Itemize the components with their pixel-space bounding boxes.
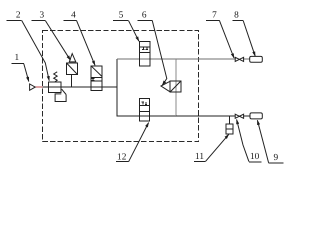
wire branch to component 11 (229, 116, 231, 124)
manifold right edge (175, 59, 177, 116)
component 12 dividers (139, 105, 149, 107)
wire bowtie to component 8 (244, 58, 250, 60)
manifold top edge (117, 58, 176, 60)
component 11 gauge body (226, 124, 233, 134)
component 6 diagonal (170, 81, 181, 92)
svg-text:7: 7 (212, 10, 217, 20)
svg-text:5: 5 (119, 10, 124, 20)
component 2 spring (54, 72, 58, 82)
wire component 3 stem (70, 75, 72, 88)
component 9 actuator (250, 113, 262, 119)
component 10 valve bowtie (235, 114, 243, 118)
label 12 leader (129, 123, 149, 162)
label 5 leader (129, 21, 139, 41)
component 5 port marks (142, 47, 148, 49)
wire red inlet segment (35, 86, 42, 88)
component 2 regulator body (49, 82, 61, 93)
label 6 leader (152, 21, 167, 85)
component 6 triangle (161, 81, 170, 92)
component 1 air inlet triangle (30, 84, 36, 90)
component 7 valve bowtie (235, 57, 243, 61)
svg-text:11: 11 (195, 152, 204, 162)
component 3 diagonal (66, 63, 77, 75)
label 8 leader (243, 20, 255, 56)
component 4 port marks (92, 78, 95, 80)
component 5 valve body (139, 42, 150, 66)
svg-text:12: 12 (117, 152, 127, 162)
wire lower output line (176, 115, 235, 117)
enclosure dashed boundary (43, 30, 199, 141)
svg-text:10: 10 (250, 152, 260, 162)
label 1 leader (24, 64, 29, 82)
svg-text:8: 8 (234, 10, 239, 20)
label 7 leader (219, 20, 234, 58)
label 11 leader (206, 134, 229, 161)
component 2 lower bowl (55, 89, 66, 101)
component 3 vent triangle (69, 54, 76, 62)
svg-text:6: 6 (142, 10, 147, 20)
component 6 check body (170, 81, 181, 92)
label 9 leader (257, 120, 268, 163)
svg-text:4: 4 (71, 11, 76, 21)
wire main supply line (41, 86, 117, 88)
component 12 valve body (139, 99, 149, 122)
svg-text:3: 3 (39, 11, 44, 21)
manifold block left and bottom edges (117, 59, 176, 116)
label 3 leader (45, 20, 70, 60)
component 4 diagonal (91, 66, 102, 77)
label underlines (6, 20, 283, 163)
svg-text:2: 2 (16, 11, 21, 21)
svg-text:1: 1 (14, 53, 19, 63)
component 4 body (91, 66, 102, 91)
label 2 leader (22, 21, 50, 81)
label 10 leader (237, 120, 249, 162)
label 4 leader (77, 20, 96, 65)
wire upper output line (176, 58, 235, 60)
svg-text:9: 9 (273, 153, 278, 163)
component 12 port marks (142, 102, 148, 104)
component 11 divider (226, 128, 233, 130)
wire bowtie to component 9 (244, 115, 250, 117)
component 5 dividers (139, 46, 150, 48)
component 3 body (66, 63, 77, 75)
component 4 dividers (91, 76, 102, 78)
component 8 actuator (250, 56, 263, 62)
